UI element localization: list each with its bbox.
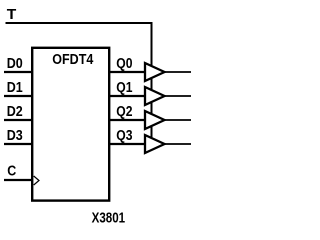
- svg-text:X3801: X3801: [92, 211, 126, 227]
- svg-text:Q3: Q3: [116, 128, 132, 144]
- svg-text:Q2: Q2: [116, 104, 132, 120]
- svg-text:Q0: Q0: [116, 56, 132, 72]
- svg-text:D3: D3: [7, 128, 23, 144]
- svg-text:D1: D1: [7, 80, 23, 96]
- svg-text:T: T: [7, 7, 17, 23]
- svg-text:D0: D0: [7, 56, 23, 72]
- svg-text:C: C: [7, 164, 16, 180]
- svg-text:OFDT4: OFDT4: [52, 52, 93, 68]
- svg-text:D2: D2: [7, 104, 23, 120]
- svg-text:Q1: Q1: [116, 80, 132, 96]
